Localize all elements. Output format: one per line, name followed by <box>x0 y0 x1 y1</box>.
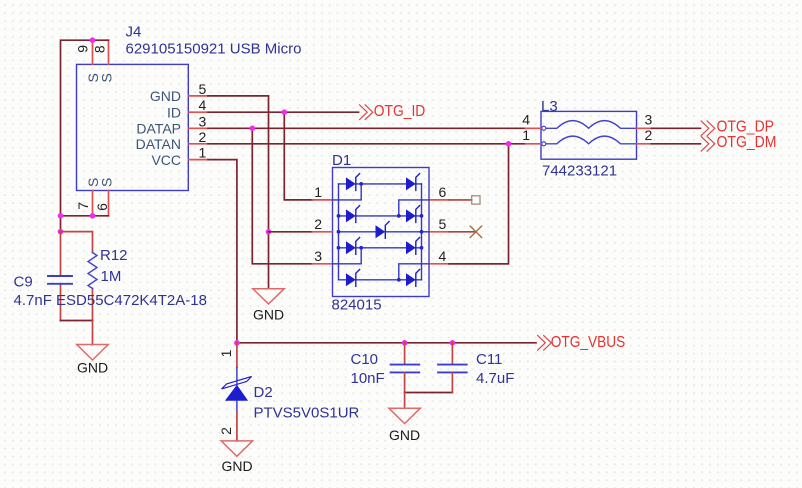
wire left rail to C9/R12 <box>60 216 62 232</box>
svg-text:DATAN: DATAN <box>136 136 181 152</box>
junction dot pin7 <box>90 213 96 219</box>
svg-text:VCC: VCC <box>151 152 181 168</box>
svg-text:GND: GND <box>253 306 284 322</box>
wire L3 pin3 to OTG_DP <box>652 127 701 129</box>
wire D1 pin2 stub link <box>269 231 313 233</box>
svg-text:3: 3 <box>645 111 653 127</box>
choke L3 body <box>541 111 637 159</box>
capacitor C9 plates <box>48 276 72 284</box>
svg-text:1M: 1M <box>101 268 122 285</box>
D1 tap row2 to pin6 <box>399 200 429 216</box>
D2 top lead <box>236 343 238 368</box>
svg-text:4: 4 <box>199 97 207 113</box>
D2 cathode bar parallelogram <box>222 377 252 389</box>
ground symbol left <box>77 345 108 361</box>
D1 pin stub 2 <box>313 231 333 233</box>
L3 polarity dot top <box>542 126 546 130</box>
svg-text:GND: GND <box>389 427 420 443</box>
junction dot ID branch <box>282 109 288 115</box>
wire D1 pin4 to DATAN branch <box>449 263 508 265</box>
svg-text:C9: C9 <box>14 274 33 291</box>
svg-text:4: 4 <box>439 248 447 264</box>
no-connect X pin5 <box>470 226 481 237</box>
D1 inner junction dots <box>337 182 424 282</box>
L3 pin stub 4 <box>526 127 542 129</box>
svg-text:10nF: 10nF <box>351 370 385 387</box>
svg-text:3: 3 <box>199 113 207 129</box>
C11 plates <box>438 365 467 373</box>
svg-text:6: 6 <box>94 203 110 211</box>
D1 diode row2 right <box>406 206 420 223</box>
D1 row1 link lines <box>339 183 422 185</box>
junction dot VBUS at C10 <box>402 340 408 346</box>
svg-text:2: 2 <box>645 127 653 143</box>
svg-text:DATAP: DATAP <box>136 121 181 137</box>
L3 pin stub 3 <box>637 127 652 129</box>
svg-text:GND: GND <box>77 360 108 376</box>
svg-text:GND: GND <box>150 88 181 104</box>
D1 diode row4 right <box>406 270 420 287</box>
D1 tap row3 to pin3 <box>333 248 362 264</box>
net port OTG_DM chevrons <box>701 137 715 152</box>
svg-text:ID: ID <box>167 104 181 120</box>
svg-text:2: 2 <box>218 427 234 435</box>
wire C10 down to GND <box>404 393 406 409</box>
svg-text:OTG_DP: OTG_DP <box>717 119 775 136</box>
wire bottom shield horizontal <box>61 215 109 217</box>
ground symbol D2 <box>221 441 252 456</box>
svg-text:C10: C10 <box>351 351 379 368</box>
connector J4 body <box>77 64 189 190</box>
wire OTG_VBUS main <box>237 342 536 344</box>
ground symbol mid (D1 pin2) <box>253 289 284 304</box>
L3 winding top <box>541 121 637 129</box>
junction dot shield bottom left <box>58 213 64 219</box>
wire C10 C11 gnd bus <box>405 392 453 394</box>
wire top shield loop <box>61 40 109 216</box>
wire D1 pin6 to no-connect square <box>449 199 472 201</box>
C10 plates <box>391 365 420 373</box>
junction dot VBUS at VCC drop <box>234 340 240 346</box>
wire DATAP to L3 pin4 <box>208 127 526 129</box>
wire GND pin5 to D1 pin2 rail <box>208 96 269 289</box>
D1 pin stub 3 <box>313 263 333 265</box>
wire D1 pin5 to X <box>449 231 476 233</box>
L3 winding bottom <box>541 136 637 144</box>
net port OTG_DP chevrons <box>701 121 715 136</box>
svg-text:5: 5 <box>199 81 207 97</box>
svg-text:6: 6 <box>439 184 447 200</box>
capacitor C9 leads <box>60 232 62 321</box>
svg-text:R12: R12 <box>100 247 128 264</box>
svg-text:4: 4 <box>522 111 530 127</box>
D1 tap row1 to pin1 <box>333 184 362 200</box>
svg-text:S: S <box>99 178 115 187</box>
svg-text:2: 2 <box>199 129 207 145</box>
resistor R12 leads <box>61 232 93 321</box>
wire ID pin4 to OTG_ID <box>208 111 359 113</box>
wire VCC down to VBUS <box>208 160 237 343</box>
svg-text:2: 2 <box>314 216 322 232</box>
D1 pin stub 4 <box>429 263 449 265</box>
C10 top lead <box>404 343 406 365</box>
D1 left anode rail <box>338 184 340 280</box>
svg-text:824015: 824015 <box>332 297 382 314</box>
svg-text:L3: L3 <box>541 98 558 115</box>
J4 pin stub 5 <box>188 95 208 97</box>
D2 blue pin bottom <box>236 401 238 412</box>
C11 top lead <box>451 343 453 365</box>
J4 pin stub 1 <box>188 159 208 161</box>
D1 row4 link lines <box>339 279 422 281</box>
svg-text:629105150921 USB Micro: 629105150921 USB Micro <box>126 41 302 58</box>
junction dot DATAP branch <box>250 126 256 132</box>
D1 right cathode rail <box>421 184 423 280</box>
J4 pin stub 7 <box>92 191 94 216</box>
D1 pin stub 5 <box>429 231 449 233</box>
D1 diode row3 left <box>346 238 360 255</box>
esd array D1 body <box>333 168 430 297</box>
D1 tap row4 to pin4 <box>399 264 429 280</box>
D1 diode row2 left <box>346 206 360 223</box>
svg-text:OTG_DM: OTG_DM <box>717 134 777 151</box>
J4 pin stub 4 <box>188 111 208 113</box>
svg-text:GND: GND <box>222 458 253 474</box>
svg-text:4.7nF ESD55C472K4T2A-18: 4.7nF ESD55C472K4T2A-18 <box>14 292 207 309</box>
D1 pin stub 6 <box>429 199 449 201</box>
svg-text:1: 1 <box>218 349 234 357</box>
J4 pin stub 8 <box>108 40 110 64</box>
wire down to GND left <box>92 321 94 345</box>
svg-text:1: 1 <box>314 184 322 200</box>
svg-text:4.7uF: 4.7uF <box>476 370 514 387</box>
C10 bottom lead <box>404 372 406 392</box>
D1 pin5 inner lead <box>422 231 430 233</box>
wire ID branch down to D1 pin1 <box>284 112 312 200</box>
junction dot VBUS at C11 <box>450 340 456 346</box>
svg-text:D2: D2 <box>254 384 273 401</box>
no-connect square pin6 <box>472 196 480 204</box>
J4 pin stub 3 <box>188 127 208 129</box>
ground symbol C10/C11 <box>389 408 420 423</box>
D2 bottom lead <box>236 412 238 441</box>
J4 pin stub 9 <box>92 40 94 64</box>
C11 bottom lead <box>451 372 453 392</box>
svg-text:1: 1 <box>522 127 530 143</box>
wire DATAN to L3 pin1 <box>208 143 526 145</box>
J4 pin stub 2 <box>188 143 208 145</box>
D2 blue pin top <box>236 367 238 384</box>
net port OTG_VBUS chevrons <box>538 336 552 351</box>
svg-text:C11: C11 <box>476 351 502 368</box>
svg-text:D1: D1 <box>332 152 351 169</box>
svg-text:744233121: 744233121 <box>542 163 617 180</box>
resistor R12 zigzag <box>88 253 97 289</box>
svg-text:PTVS5V0S1UR: PTVS5V0S1UR <box>254 405 360 422</box>
svg-text:9: 9 <box>74 45 90 53</box>
D1 diode row3 right <box>406 238 420 255</box>
D1 diode row1 right <box>406 174 420 191</box>
D1 diode center <box>376 222 390 239</box>
J4 pin stub 6 <box>108 191 110 216</box>
L3 pin stub 1 <box>526 143 542 145</box>
svg-text:S: S <box>99 73 115 82</box>
junction dot C9/R12 branch <box>58 229 64 235</box>
wire DATAN branch down to D1 pin4 <box>449 144 509 264</box>
junction dot DATAN branch <box>506 141 512 147</box>
junction dot D1 pin2 GND <box>266 229 272 235</box>
svg-text:OTG_ID: OTG_ID <box>374 103 426 120</box>
svg-text:7: 7 <box>75 202 91 210</box>
D1 diode row4 left <box>346 270 360 287</box>
wire C9 R12 bottom bus <box>61 320 93 322</box>
wire DATAP branch down to D1 pin3 <box>252 128 312 263</box>
L3 pin stub 2 <box>637 143 652 145</box>
D1 pin stub 1 <box>313 199 333 201</box>
junction dot pin9 <box>90 37 96 43</box>
D1 row3 link lines <box>339 247 422 249</box>
D1 row2 link lines <box>339 215 422 217</box>
net port OTG_ID chevrons <box>360 105 373 120</box>
svg-text:8: 8 <box>91 45 107 53</box>
svg-text:5: 5 <box>439 216 447 232</box>
wire L3 pin2 to OTG_DM <box>652 143 701 145</box>
D1 diode row1 left <box>346 174 360 191</box>
svg-text:OTG_VBUS: OTG_VBUS <box>551 334 626 351</box>
D2 triangle <box>225 385 248 401</box>
svg-text:1: 1 <box>199 145 207 161</box>
D1 center row link lines <box>339 231 422 233</box>
svg-text:J4: J4 <box>126 24 142 41</box>
svg-text:3: 3 <box>314 248 322 264</box>
L3 polarity dot bottom <box>542 142 546 146</box>
